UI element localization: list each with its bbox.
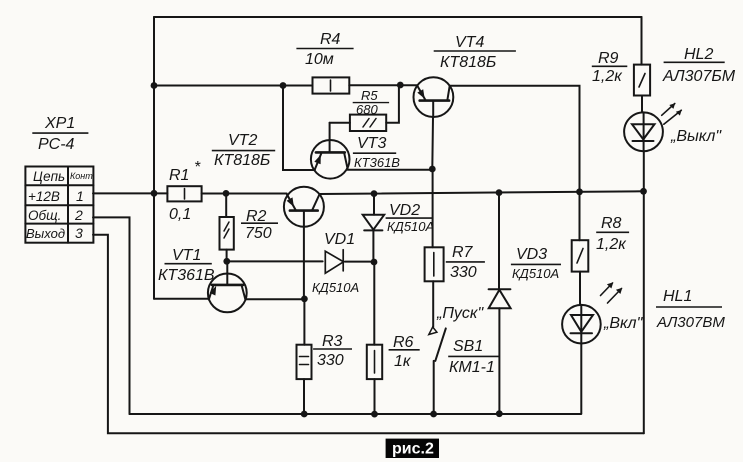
label R9 designator and value (592, 50, 628, 85)
node junction ground rail / R3 (301, 411, 308, 418)
svg-text:1: 1 (76, 188, 84, 204)
svg-text:„Пуск": „Пуск" (436, 305, 484, 322)
svg-text:Конт: Конт (70, 171, 93, 181)
wire R5 right riser to R4 net (386, 85, 399, 123)
label VT3 designator and type (353, 135, 400, 170)
wire HL2 bottom / output riser (643, 151, 645, 433)
svg-text:HL2: HL2 (684, 46, 713, 63)
svg-text:750: 750 (245, 225, 272, 242)
svg-text:10м: 10м (305, 51, 334, 68)
resistor R3 (297, 345, 312, 379)
label HL1 designator and type (656, 288, 725, 331)
resistor R4 (313, 77, 350, 93)
svg-text:рис.2: рис.2 (392, 441, 434, 458)
wire HL1 bottom to ground rail end (580, 344, 582, 414)
wire R9 to HL2 (641, 96, 643, 113)
wire VD3 bottom to ground rail (498, 308, 500, 413)
resistor R2 (220, 217, 234, 250)
svg-text:1к: 1к (394, 353, 412, 370)
svg-text:КД510А: КД510А (387, 219, 434, 234)
svg-text:РС-4: РС-4 (38, 136, 75, 153)
node junction net B / VD2 (371, 190, 378, 197)
wire VT1 collector to junction (245, 298, 304, 300)
svg-text:КТ818Б: КТ818Б (214, 152, 270, 169)
LED HL2 (624, 112, 663, 151)
svg-text:ХР1: ХР1 (44, 115, 75, 132)
svg-text:R3: R3 (322, 333, 343, 350)
node junction net B / R8 / VT4 collector (576, 188, 583, 195)
label figure caption рис.2 (386, 439, 439, 458)
label HL2 designator and type (662, 46, 736, 85)
svg-text:R1: R1 (169, 167, 189, 184)
wire R3 riser (303, 299, 305, 345)
node junction VD1/VD2/R6 (371, 259, 378, 266)
svg-text:VT4: VT4 (455, 34, 484, 51)
svg-text:0,1: 0,1 (169, 206, 191, 223)
wire VD1 cathode to VD2 junction (345, 261, 374, 263)
wire output bottom line to pin3 (93, 235, 644, 433)
wire VT3 base to R5 left (330, 122, 350, 124)
svg-text:+12В: +12В (28, 189, 60, 204)
label VT4 designator and type (434, 34, 516, 71)
svg-text:КТ361В: КТ361В (158, 267, 215, 284)
node junction net B / VD3 (496, 189, 503, 196)
resistor R8 (572, 240, 589, 271)
node junction left of R1 (151, 190, 158, 197)
svg-text:АЛ307БМ: АЛ307БМ (662, 68, 736, 85)
svg-text:R4: R4 (320, 31, 341, 48)
node junction ground rail / R6 (371, 411, 378, 418)
wire pin2 to ground rail (93, 217, 130, 414)
LED HL1 (562, 305, 601, 344)
svg-text:КТ818Б: КТ818Б (440, 54, 496, 71)
wire pin1 +12V to R1 (93, 192, 167, 194)
wire VT2 collector output line (net B) (320, 191, 644, 194)
wire R7 riser (432, 169, 434, 247)
label VT2 designator and type (212, 132, 275, 169)
wire ground bottom rail (130, 413, 582, 415)
svg-text:VD3: VD3 (516, 246, 547, 263)
resistor R7 (425, 247, 444, 281)
wire VT4 collector to R8 node (450, 86, 580, 192)
wire VD2 anode drop (373, 194, 375, 215)
node junction at R4 feed / VT3 riser (280, 82, 287, 89)
label R1 designator and value (169, 159, 201, 223)
wire HL1 emission arrow 1 (601, 282, 614, 295)
wire R7 bottom to switch (432, 281, 434, 327)
wire R9 drop from top rail (641, 17, 643, 65)
label R3 designator and value (313, 333, 352, 369)
node junction VT3 collector / VT4 base / R7 (429, 166, 436, 173)
wire SB1 bottom to ground rail (433, 361, 435, 414)
wire VD3 top (498, 193, 500, 290)
svg-text:330: 330 (317, 352, 344, 369)
wire R8 to HL1 (579, 272, 581, 305)
svg-text:1,2к: 1,2к (596, 236, 627, 253)
node junction VT1 collector / VT2 base / R3 (301, 296, 308, 303)
svg-text:Общ.: Общ. (28, 208, 61, 223)
wire net C to VD1 anode (227, 260, 323, 262)
label R2 designator and value (241, 208, 278, 242)
wire VT3 emitter riser (283, 86, 315, 171)
diode VD1 (325, 250, 343, 274)
wire R4 to VT4 emitter (349, 84, 417, 86)
svg-text:1,2к: 1,2к (592, 68, 623, 85)
wire R1 to VT2 emitter (202, 193, 287, 195)
label VD2 designator and type (386, 202, 435, 234)
transistor VT3 (311, 123, 350, 179)
svg-text:*: * (194, 159, 201, 176)
svg-text:КМ1-1: КМ1-1 (449, 359, 495, 376)
transistor VT2 (284, 187, 324, 227)
switch SB1 (429, 327, 446, 361)
wire left main vertical (rail to VT1 emitter level) (153, 17, 155, 299)
label VD1 designator and type (312, 231, 359, 295)
diode VD3 (489, 289, 511, 308)
label R7 designator and value (446, 244, 485, 281)
svg-text:КД510А: КД510А (312, 280, 359, 295)
wire HL2 emission arrow 2 (664, 110, 682, 124)
svg-text:Цепь: Цепь (33, 169, 65, 184)
svg-text:2: 2 (74, 207, 83, 223)
connector XP1 table (25, 167, 93, 243)
label VT1 designator and type (158, 247, 215, 284)
transistor VT4 (414, 77, 454, 117)
svg-text:VD1: VD1 (324, 231, 355, 248)
svg-text:R6: R6 (393, 334, 414, 351)
wire R4 feed horizontal (154, 85, 313, 87)
label R6 designator and value (389, 334, 420, 370)
wire VT3 collector to R7 node (348, 169, 433, 171)
node junction ground rail / VD3 (496, 410, 503, 417)
label SB1 designator and type (448, 338, 498, 376)
node junction at left vertical / R4 feed (151, 82, 158, 89)
node junction R4/R5/VT4 emitter (397, 82, 404, 89)
svg-text:SB1: SB1 (453, 338, 483, 355)
wire VT2 base to VT1 collector / R3 (303, 227, 305, 299)
svg-text:VT3: VT3 (357, 135, 386, 152)
svg-text:VT1: VT1 (172, 247, 201, 264)
resistor R1 (167, 186, 201, 201)
svg-text:330: 330 (450, 264, 477, 281)
diode VD2 (363, 215, 385, 262)
node junction R1-VT2 wire / R2 top (223, 190, 230, 197)
wire VT4 base to R7 node (431, 117, 434, 169)
transistor VT1 (208, 261, 247, 312)
label R5 designator and value (353, 88, 389, 117)
resistor R6 (367, 345, 382, 379)
svg-text:„Выкл": „Выкл" (670, 128, 722, 145)
wire R2 top drop (225, 194, 227, 218)
svg-text:КТ361В: КТ361В (354, 155, 400, 170)
label R4 designator and value (296, 31, 353, 68)
node junction net B / output riser (640, 188, 647, 195)
label VD3 designator and type (511, 246, 561, 281)
wire R3 bottom (303, 379, 305, 414)
wire R6 bottom (374, 379, 376, 414)
svg-text:R8: R8 (601, 215, 622, 232)
wire HL1 emission arrow 2 (608, 288, 623, 303)
svg-text:КД510А: КД510А (512, 266, 559, 281)
wire R8 riser (579, 192, 581, 240)
svg-text:VD2: VD2 (389, 202, 420, 219)
wire R6 riser (373, 262, 375, 345)
svg-text:„Вкл": „Вкл" (603, 315, 644, 332)
label R8 designator and value (596, 215, 629, 253)
node junction ground rail / SB1 (430, 411, 437, 418)
resistor R5 (350, 115, 386, 131)
svg-text:VT2: VT2 (228, 132, 257, 149)
node junction R2/VT1 base/VD1 (223, 258, 230, 265)
svg-text:АЛ307ВМ: АЛ307ВМ (656, 314, 725, 331)
svg-text:Выход: Выход (26, 226, 65, 241)
resistor R9 (634, 65, 650, 96)
label XP1 designator (32, 115, 88, 153)
wire R2 bottom to net C (226, 250, 228, 262)
svg-text:HL1: HL1 (663, 288, 692, 305)
svg-text:R5: R5 (361, 88, 378, 103)
svg-text:680: 680 (356, 102, 378, 117)
wire HL2 emission arrow 1 (662, 103, 676, 115)
wire top +12V rail (154, 16, 642, 18)
svg-text:R7: R7 (452, 244, 474, 261)
svg-text:R9: R9 (598, 50, 619, 67)
wire VT1 emitter to left vertical (154, 298, 209, 300)
svg-text:3: 3 (75, 225, 83, 241)
